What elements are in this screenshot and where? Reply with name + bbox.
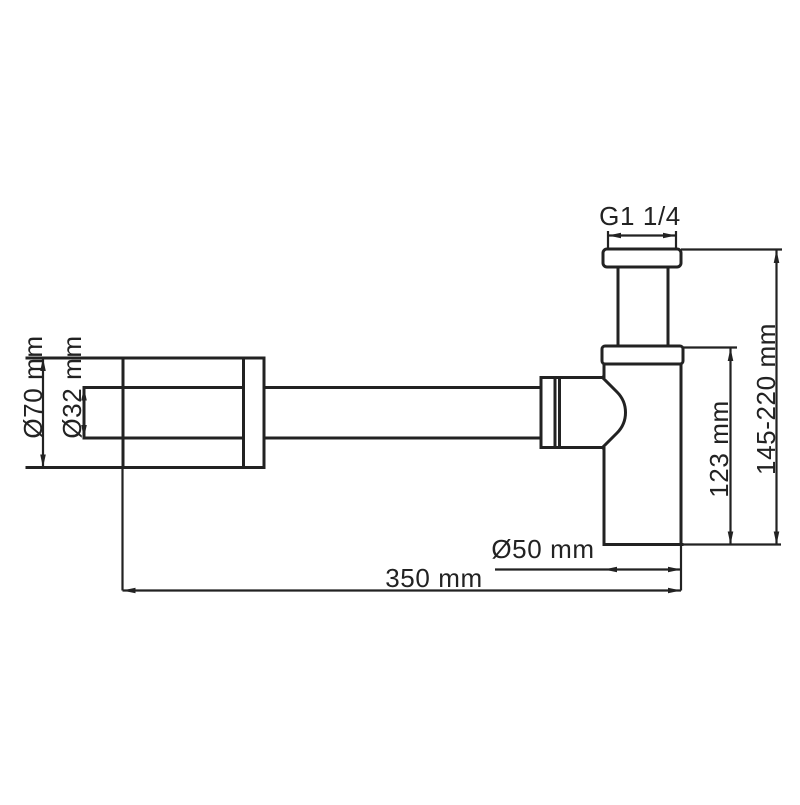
svg-text:Ø70 mm: Ø70 mm [18, 335, 48, 438]
svg-text:Ø32 mm: Ø32 mm [57, 335, 87, 438]
svg-text:350 mm: 350 mm [385, 563, 483, 593]
svg-text:145-220 mm: 145-220 mm [751, 323, 781, 475]
svg-text:Ø50 mm: Ø50 mm [491, 534, 594, 564]
svg-text:123 mm: 123 mm [704, 400, 734, 498]
svg-text:G1 1/4: G1 1/4 [599, 201, 681, 231]
